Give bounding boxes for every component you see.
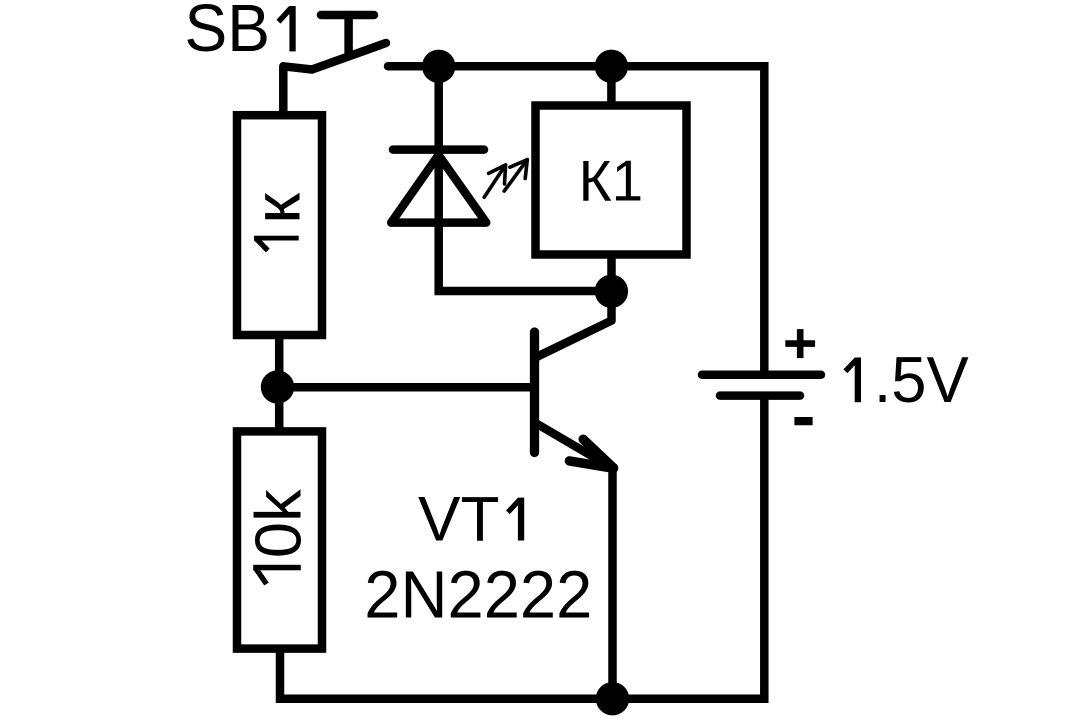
relay K1 box bbox=[536, 106, 687, 255]
svg-text:.5V: .5V bbox=[874, 343, 970, 416]
resistor R1 1k body bbox=[237, 115, 322, 335]
node: ground rail junction dot bbox=[596, 682, 629, 715]
svg-text:К1: К1 bbox=[579, 149, 644, 213]
battery plus sign bbox=[785, 329, 815, 358]
svg-text:SB: SB bbox=[185, 0, 271, 66]
LED VD1 light arrow 2 bbox=[504, 160, 527, 192]
svg-text:к: к bbox=[241, 192, 314, 224]
LED VD1 light arrow 1 bbox=[484, 165, 505, 197]
transistor VT1 emitter bbox=[536, 423, 614, 468]
svg-text:VT: VT bbox=[418, 485, 500, 555]
LED VD1 top wire from rail bbox=[439, 66, 612, 291]
node: base junction dot bbox=[261, 370, 294, 403]
transistor VT1 emitter arrowhead bbox=[569, 439, 613, 468]
svg-text:0k: 0k bbox=[242, 489, 315, 558]
node: K1 top junction dot bbox=[595, 50, 628, 83]
wire: top rail from switch right terminal to right corner, down to battery + bbox=[388, 66, 764, 374]
wire: K1 bottom to collector node bbox=[607, 255, 616, 292]
transistor VT1 base bar bbox=[530, 332, 539, 453]
wire: R2 bottom to ground rail corner bbox=[280, 396, 764, 699]
wire: base node to transistor base bbox=[278, 383, 535, 392]
node: LED top junction dot bbox=[422, 50, 455, 83]
battery GB1 negative plate bbox=[720, 391, 800, 400]
LED VD1 triangle bbox=[391, 155, 486, 223]
transistor VT1 collector bbox=[536, 292, 612, 358]
pushbutton SB1 blade and left terminal wire bbox=[283, 43, 386, 115]
battery minus sign bbox=[794, 417, 812, 425]
pushbutton SB1 actuator bbox=[321, 15, 374, 53]
node: collector junction dot bbox=[595, 275, 628, 308]
resistor R2 10k body bbox=[237, 431, 322, 648]
battery GB1 positive plate bbox=[702, 370, 821, 379]
wire: top rail to K1 top bbox=[607, 66, 616, 105]
LED VD1 cathode bar bbox=[393, 145, 484, 154]
svg-text:2N2222: 2N2222 bbox=[364, 558, 592, 633]
wire: R1 bottom to base node to R2 top bbox=[275, 335, 284, 431]
wire: emitter down to ground rail bbox=[608, 464, 617, 699]
